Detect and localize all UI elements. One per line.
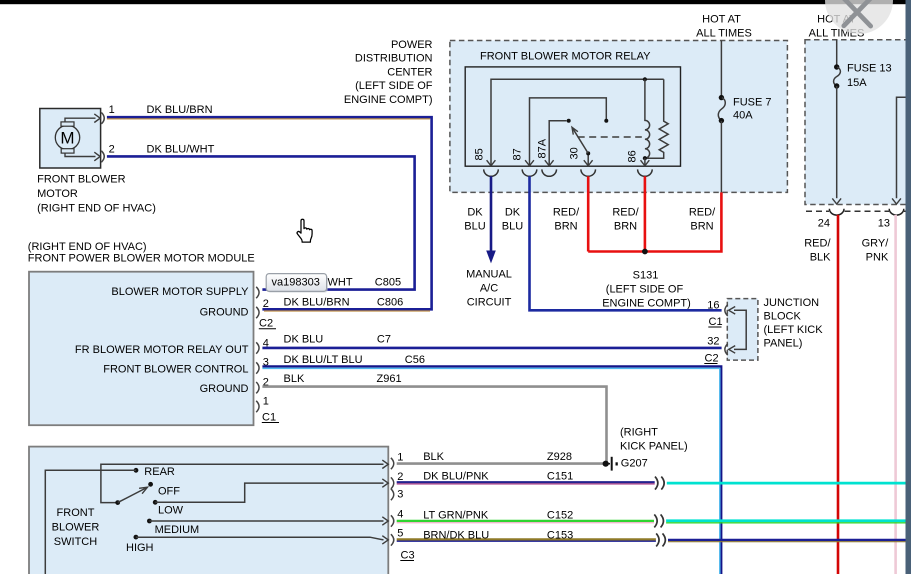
relay pin 87A connector cup	[542, 169, 557, 176]
svg-text:C1: C1	[262, 411, 276, 423]
label RED/BRN (pin 30 wire)	[553, 207, 580, 233]
switch S1 front blower switch box	[29, 447, 388, 574]
module connector arc C56 pin 3	[256, 362, 259, 373]
connector C152 break arcs	[654, 514, 663, 527]
label FRONT BLOWER MOTOR (RIGHT END OF HVAC)	[37, 174, 156, 215]
svg-text:2: 2	[109, 143, 115, 155]
svg-text:BLK: BLK	[284, 373, 305, 385]
wire BLK Z961 : module ground to G207	[262, 387, 606, 462]
wire DK BLU/PNK C151 : switch pin 2	[397, 481, 655, 483]
svg-text:DK BLU: DK BLU	[284, 334, 324, 346]
fuse F7 symbol	[719, 95, 724, 100]
junction block pin 16 arrow	[729, 307, 736, 315]
junction block dashed box	[727, 299, 758, 361]
relay armature lever	[573, 129, 588, 154]
wire DK BLU/BRN : motor pin1 to module C806	[107, 117, 432, 309]
wire relay 85 DK BLU to manual A/C circuit	[490, 176, 493, 251]
junction block pin 16 connector arc	[725, 305, 728, 316]
svg-text:3: 3	[397, 489, 403, 501]
module connector arc C7 pin 4	[256, 342, 259, 353]
svg-text:15A: 15A	[847, 77, 867, 89]
svg-text:(RIGHT END OF HVAC): (RIGHT END OF HVAC)	[28, 241, 147, 253]
svg-text:40A: 40A	[733, 109, 753, 121]
switch REAR contact dot	[134, 468, 139, 473]
wire 13 GRY/PNK vertical	[894, 215, 897, 574]
svg-text:(LEFT SIDE OF: (LEFT SIDE OF	[606, 284, 684, 296]
wire DK BLU/WHT : motor pin2 to module C805	[107, 156, 415, 289]
relay resistor	[647, 79, 668, 158]
wire DK BLU/LT BLU C56 : module pin3 down off-page	[262, 366, 721, 574]
svg-text:GROUND: GROUND	[200, 383, 249, 395]
svg-text:30: 30	[569, 147, 581, 159]
switch pin 4 arrow	[382, 517, 388, 525]
motor M1 front blower motor box	[40, 109, 101, 169]
svg-text:PANEL): PANEL)	[764, 337, 803, 349]
wire DK BLU/BRN brown tracer	[107, 119, 430, 311]
svg-text:Z961: Z961	[377, 373, 402, 385]
label (RIGHT KICK PANEL)	[620, 427, 688, 453]
module U2 front power blower motor module box	[29, 272, 254, 426]
svg-text:BRN/DK BLU: BRN/DK BLU	[423, 529, 489, 541]
svg-text:MEDIUM: MEDIUM	[155, 524, 200, 536]
svg-text:LT GRN/PNK: LT GRN/PNK	[423, 510, 489, 522]
svg-text:S131: S131	[633, 270, 659, 282]
svg-text:BLOCK: BLOCK	[764, 310, 802, 322]
relay pin 85 connector cup	[484, 169, 499, 176]
svg-text:C152: C152	[547, 510, 573, 522]
module connector arc C805 pin 1	[256, 287, 259, 298]
svg-text:ENGINE COMPT): ENGINE COMPT)	[602, 297, 691, 309]
wire BRN/DK BLU C153 : switch pin 5	[397, 538, 656, 540]
svg-text:CIRCUIT: CIRCUIT	[467, 297, 512, 309]
svg-text:HOT AT: HOT AT	[702, 13, 741, 25]
svg-text:POWER: POWER	[391, 39, 433, 51]
svg-text:GROUND: GROUND	[200, 307, 249, 319]
relay coil	[645, 79, 650, 158]
svg-text:(LEFT KICK: (LEFT KICK	[764, 324, 824, 336]
svg-text:RED/: RED/	[689, 207, 716, 219]
svg-text:MANUAL: MANUAL	[466, 269, 512, 281]
connector C151 break arcs	[655, 477, 664, 490]
svg-text:FUSE 13: FUSE 13	[847, 63, 892, 75]
switch OFF contact dot	[148, 482, 153, 487]
svg-text:1: 1	[397, 452, 403, 464]
close button X	[844, 0, 871, 26]
switch LOW wire to pin 2	[155, 483, 383, 502]
relay node: coil/resistor bottom junction dot	[643, 156, 647, 160]
motor pin 2 connector arc	[101, 151, 104, 162]
svg-text:MOTOR: MOTOR	[37, 188, 78, 200]
wire S131 red bus	[588, 192, 721, 251]
wire C153 continuation	[668, 539, 911, 541]
svg-text:2: 2	[263, 298, 269, 310]
svg-text:DK BLU/PNK: DK BLU/PNK	[423, 470, 489, 482]
svg-text:(LEFT SIDE OF: (LEFT SIDE OF	[355, 80, 433, 92]
wire relay 87 DK BLU to junction block pin 16	[530, 176, 722, 310]
motor brush top	[61, 122, 74, 126]
mouse cursor (hand pointer)	[297, 219, 312, 242]
svg-text:C1: C1	[709, 316, 723, 328]
svg-text:C3: C3	[401, 549, 415, 561]
svg-text:DK BLU/BRN: DK BLU/BRN	[284, 297, 350, 309]
svg-text:13: 13	[878, 218, 890, 230]
browser window right edge strip	[906, 0, 911, 574]
svg-text:32: 32	[707, 335, 719, 347]
relay pin 87 riser to NO contact	[530, 98, 607, 166]
close button circle	[825, 0, 893, 34]
fuse F7 supply wire	[720, 41, 722, 96]
relay pin 87 arrow	[525, 160, 534, 166]
svg-text:DK BLU/BRN: DK BLU/BRN	[147, 104, 213, 116]
module connector arc C806 pin 2	[256, 307, 259, 318]
svg-text:FRONT BLOWER: FRONT BLOWER	[37, 174, 125, 186]
label FRONT BLOWER SWITCH	[52, 507, 100, 548]
svg-text:SWITCH: SWITCH	[54, 536, 97, 548]
svg-text:HIGH: HIGH	[126, 542, 154, 554]
svg-text:FUSE 7: FUSE 7	[733, 96, 772, 108]
fuse F13 symbol	[834, 64, 839, 69]
switch pin 1 arrow	[382, 460, 388, 468]
junction block internal bus	[734, 310, 746, 349]
top black bar	[0, 0, 907, 4]
wire C152 continuation (highlighted)	[666, 519, 911, 522]
manual A/C circuit arrowhead	[486, 251, 496, 264]
relay mechanical link (dashed)	[578, 136, 642, 138]
wire relay 86 RED/BRN down	[644, 176, 647, 251]
relay pin 86 connector cup	[638, 169, 653, 176]
label MANUAL A/C CIRCUIT	[466, 269, 512, 309]
svg-text:G207: G207	[621, 458, 648, 470]
label HOT AT ALL TIMES (left, fuse 7 feed)	[696, 13, 752, 39]
svg-text:5: 5	[397, 527, 403, 539]
svg-text:86: 86	[627, 150, 639, 162]
svg-text:ENGINE COMPT): ENGINE COMPT)	[344, 94, 433, 106]
relay pin 30 arrow	[584, 160, 593, 166]
relay pin 30 riser	[587, 153, 589, 165]
svg-text:(RIGHT: (RIGHT	[620, 427, 658, 439]
svg-text:BRN: BRN	[614, 221, 637, 233]
pin 24 connector cup	[829, 209, 844, 215]
label DK BLU (pin 87 wire)	[502, 207, 523, 233]
motor symbol circle	[55, 125, 79, 149]
relay pin 30 connector cup	[581, 169, 596, 176]
svg-text:DK BLU/LT BLU: DK BLU/LT BLU	[284, 354, 363, 366]
pin 13 connector cup	[889, 209, 904, 215]
relay NC contact dot (87A)	[567, 119, 571, 123]
pin 13 arrow	[892, 198, 901, 204]
wire DK BLU C7 : module pin4 to junction block pin 32	[262, 347, 721, 350]
relay pin 86 stub	[644, 158, 646, 166]
svg-text:BLK: BLK	[423, 451, 444, 463]
svg-text:1: 1	[109, 104, 115, 116]
svg-text:PNK: PNK	[866, 252, 889, 264]
svg-text:RED/: RED/	[612, 207, 639, 219]
label RED/BLK	[804, 238, 831, 264]
switch common feed line to pin 1	[101, 464, 384, 502]
module label BLOWER MOTOR SUPPLY	[75, 286, 249, 395]
pin 24 arrow	[832, 198, 841, 204]
svg-text:FRONT: FRONT	[57, 507, 95, 519]
svg-text:ALL TIMES: ALL TIMES	[696, 28, 752, 40]
power distribution center dashed box (left, relay+fuse7)	[450, 41, 788, 193]
fuse F7 output wire (inside box)	[720, 121, 722, 192]
relay pin 87 connector cup	[522, 169, 537, 176]
switch connector arc pin 5	[391, 534, 394, 545]
wire relay 30 RED/BRN down	[587, 176, 590, 251]
svg-text:JUNCTION: JUNCTION	[764, 297, 820, 309]
relay NO contact dot (87)	[604, 119, 608, 123]
svg-text:C56: C56	[405, 354, 425, 366]
svg-text:DK: DK	[505, 207, 521, 219]
switch lever	[118, 488, 146, 503]
relay common dot (30)	[586, 151, 590, 155]
svg-text:GRY/: GRY/	[862, 238, 890, 250]
svg-text:4: 4	[397, 509, 403, 521]
svg-text:87: 87	[512, 148, 524, 160]
svg-text:REAR: REAR	[144, 466, 175, 478]
switch connector arc pin 3	[391, 489, 394, 500]
motor pin 2 arrow	[94, 152, 100, 161]
relay node: coil/resistor junction dot on top rail	[643, 77, 647, 81]
svg-text:BLOWER MOTOR SUPPLY: BLOWER MOTOR SUPPLY	[111, 286, 249, 298]
svg-text:C151: C151	[547, 470, 573, 482]
relay pin 86 arrow	[641, 160, 650, 166]
svg-text:C805: C805	[375, 276, 401, 288]
svg-text:BLOWER: BLOWER	[52, 522, 100, 534]
svg-text:FR BLOWER MOTOR RELAY OUT: FR BLOWER MOTOR RELAY OUT	[75, 344, 249, 356]
junction block pin 32 arrow	[729, 346, 736, 354]
module connector arc C1 pin 1	[256, 401, 259, 412]
svg-text:85: 85	[474, 148, 486, 160]
svg-text:BLU: BLU	[464, 221, 485, 233]
fuse F13 supply wire	[836, 40, 838, 65]
label JUNCTION BLOCK (LEFT KICK PANEL)	[764, 297, 824, 350]
label DK BLU (pin 85 wire)	[464, 207, 485, 233]
svg-text:BLU: BLU	[502, 221, 523, 233]
relay armature arrowhead	[572, 127, 578, 134]
ground symbol G207	[606, 463, 610, 465]
switch HIGH contact dot	[134, 535, 139, 540]
switch connector arc pin 4	[391, 515, 394, 526]
junction block pin 32 connector arc	[725, 344, 728, 355]
relay pin 85 arrow	[487, 160, 496, 166]
svg-text:BRN: BRN	[690, 221, 713, 233]
svg-text:RED/: RED/	[553, 207, 580, 219]
svg-text:BRN: BRN	[554, 221, 577, 233]
motor pin 2 internal wire	[65, 153, 96, 156]
switch pin 2 arrow	[382, 479, 388, 487]
svg-text:C153: C153	[547, 529, 573, 541]
power distribution center dashed box (right, fuse 13)	[805, 40, 908, 205]
switch REAR wire to off-page bottom	[45, 470, 136, 574]
module connector arc Z961 pin 2	[256, 382, 259, 393]
relay pin 85 riser and top rail	[491, 79, 664, 166]
fuse F13 output wire to pin 24	[836, 86, 838, 198]
svg-text:(RIGHT END OF HVAC): (RIGHT END OF HVAC)	[37, 203, 156, 215]
svg-text:FRONT BLOWER MOTOR RELAY: FRONT BLOWER MOTOR RELAY	[480, 51, 651, 63]
svg-text:WHT: WHT	[328, 276, 353, 288]
svg-text:FRONT BLOWER CONTROL: FRONT BLOWER CONTROL	[103, 363, 248, 375]
motor brush bottom	[61, 149, 74, 153]
node S131 junction dot	[642, 249, 648, 255]
svg-text:LOW: LOW	[158, 505, 184, 517]
svg-text:C7: C7	[377, 334, 391, 346]
svg-text:24: 24	[818, 218, 830, 230]
svg-text:RED/: RED/	[804, 238, 831, 250]
svg-text:87A: 87A	[537, 138, 549, 158]
svg-text:C2: C2	[705, 352, 719, 364]
svg-text:FRONT POWER BLOWER MOTOR MODUL: FRONT POWER BLOWER MOTOR MODULE	[28, 252, 255, 264]
wire to pin 13 (from off-page right)	[897, 97, 909, 198]
label POWER DISTRIBUTION CENTER (LEFT SIDE OF ENGINE COMPT)	[344, 39, 433, 106]
svg-text:CENTER: CENTER	[387, 66, 432, 78]
relay pin 87A riser to NC contact	[549, 121, 566, 166]
svg-text:1: 1	[263, 396, 269, 408]
svg-text:M: M	[60, 129, 74, 148]
label (RIGHT END OF HVAC) FRONT POWER BLOWER MOTOR MODULE	[28, 241, 255, 264]
motor pin 1 internal wire	[65, 118, 96, 122]
tooltip va198303	[268, 275, 328, 293]
svg-text:DK BLU/WHT: DK BLU/WHT	[147, 143, 215, 155]
switch pin 5 arrow	[382, 536, 388, 544]
node G207 ground dot	[603, 461, 609, 467]
label HOT AT ALL TIMES (right, fuse 13 feed)	[809, 13, 865, 39]
switch connector arc pin 1	[391, 458, 394, 469]
wire LT GRN/PNK C152 : switch pin 4	[397, 520, 654, 522]
svg-text:OFF: OFF	[158, 486, 180, 498]
wire BLK Z928 : switch pin1 to G207	[397, 462, 604, 465]
svg-text:BLK: BLK	[810, 252, 831, 264]
svg-text:DK: DK	[467, 207, 483, 219]
switch lever arrowhead	[139, 487, 147, 494]
svg-text:A/C: A/C	[480, 283, 498, 295]
label S131 (LEFT SIDE OF ENGINE COMPT)	[602, 270, 691, 310]
svg-text:Z928: Z928	[547, 451, 572, 463]
label GRY/PNK	[862, 238, 890, 264]
label RED/BRN (pin 86 wire)	[612, 207, 639, 233]
switch MEDIUM contact dot	[147, 519, 152, 524]
wire C151 continuation (highlighted)	[667, 482, 911, 485]
svg-text:KICK PANEL): KICK PANEL)	[620, 441, 688, 453]
wire 24 RED/BLK vertical	[837, 215, 840, 574]
label RED/BRN (fuse 7 wire)	[689, 207, 716, 233]
svg-text:C2: C2	[259, 318, 273, 330]
motor pin 1 arrow	[94, 114, 100, 123]
svg-text:C806: C806	[377, 297, 403, 309]
relay inner box	[465, 67, 680, 166]
svg-text:DISTRIBUTION: DISTRIBUTION	[355, 53, 433, 65]
connector C153 break arcs	[656, 533, 665, 546]
switch connector arc pin 2	[391, 477, 394, 488]
switch HIGH wire to pin 5	[136, 537, 384, 540]
connector dashed line at PDC bottom	[806, 210, 907, 212]
switch common pivot dot	[115, 500, 120, 505]
svg-text:16: 16	[707, 300, 719, 312]
switch MEDIUM wire to pin 4	[149, 520, 383, 522]
svg-text:va198303: va198303	[272, 276, 320, 288]
motor pin 1 connector arc	[101, 113, 104, 124]
relay pin 87A arrow	[545, 160, 554, 166]
switch LOW contact dot	[153, 500, 158, 505]
